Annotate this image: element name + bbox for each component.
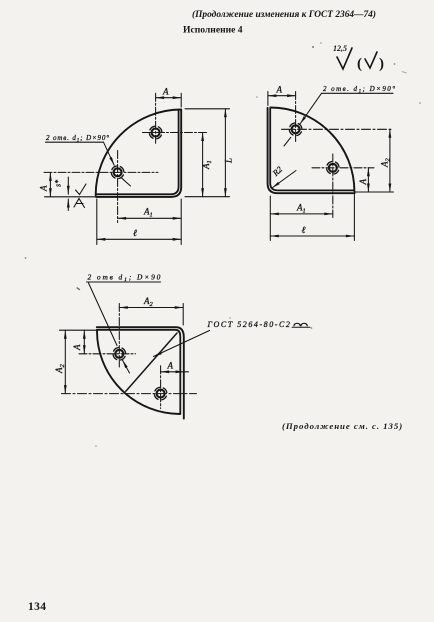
D1 bottom edge extension to left	[45, 196, 97, 198]
D3 weld seam diagonal	[126, 333, 177, 391]
D3 dim A left	[72, 330, 84, 354]
svg-text:A2: A2	[143, 296, 154, 308]
svg-text:ℓ: ℓ	[302, 226, 306, 236]
svg-text:A: A	[72, 344, 82, 351]
svg-text:s*: s*	[54, 180, 63, 187]
surface finish checkmark	[337, 48, 352, 69]
D1 dim L bottom	[97, 199, 181, 245]
D1 right flange outer line	[96, 110, 181, 197]
svg-text:A2: A2	[54, 364, 66, 375]
svg-text:): )	[379, 56, 384, 72]
D3 top edge + right edge inner line	[97, 330, 181, 414]
D3 upper hole	[79, 304, 136, 368]
D3 weld symbol waves	[294, 323, 307, 325]
D1 surface checkmark above edge	[76, 184, 87, 195]
svg-text:L: L	[224, 158, 234, 164]
D2 outer arc	[270, 107, 354, 191]
D1 dim A top	[156, 87, 182, 108]
D2 dim A right inner	[358, 168, 368, 192]
D2 dim A2 right	[355, 129, 394, 192]
D3 outer arc	[97, 331, 180, 414]
svg-text:(Продолжение см. с. 135): (Продолжение см. с. 135)	[282, 421, 403, 431]
svg-text:(: (	[357, 56, 362, 72]
scan specks	[25, 42, 421, 447]
D3 weld leader	[154, 331, 210, 357]
D3 hole leader	[89, 283, 130, 373]
svg-text:A: A	[167, 361, 174, 371]
D2 label R2	[270, 164, 296, 188]
svg-text:R2: R2	[270, 164, 285, 179]
D3 lower hole	[62, 366, 197, 409]
svg-text:A: A	[39, 185, 49, 192]
svg-text:A: A	[358, 179, 368, 186]
svg-text:A1: A1	[296, 203, 306, 215]
D1 dim A left	[39, 172, 51, 196]
svg-text:A: A	[276, 85, 283, 95]
D2 hole leader	[284, 93, 322, 146]
D2 left flange inner line + bottom inner	[270, 109, 354, 191]
D1 dim s* thickness	[54, 177, 69, 211]
svg-text:(Продолжение изменения к ГОСТ: (Продолжение изменения к ГОСТ 2364—74)	[192, 9, 376, 20]
D1 right flange inner line	[96, 111, 178, 195]
svg-text:Исполнение 4: Исполнение 4	[183, 25, 243, 36]
D2 upper hole	[282, 92, 394, 142]
D1 surface checkmark below edge	[74, 199, 85, 208]
svg-text:12,5: 12,5	[333, 44, 347, 53]
D1 upper hole	[143, 93, 207, 144]
D3 hole label underline	[87, 281, 161, 283]
D1 dim A1 right	[201, 133, 213, 197]
svg-text:A: A	[162, 87, 169, 97]
svg-text:ℓ: ℓ	[133, 229, 137, 239]
D2 lower hole	[312, 154, 374, 218]
D3 top edge + right edge outer line	[97, 327, 184, 418]
D3 dim A mid right	[161, 361, 189, 372]
D3 dim A2 top	[119, 296, 183, 325]
D1 outer arc	[96, 110, 181, 196]
D1 lower hole	[44, 151, 158, 223]
D2 dim A1 bottom	[270, 196, 333, 241]
svg-text:2 отв d1; D×90: 2 отв d1; D×90	[88, 273, 163, 283]
D2 dim L bottom	[270, 195, 354, 241]
D3 dim A2 left	[54, 330, 66, 393]
D2 hole label underline	[322, 92, 394, 94]
D1 hole leader	[104, 142, 131, 186]
svg-text:A1: A1	[143, 207, 153, 219]
D1 dim A1 bottom	[118, 199, 182, 245]
D2 dim A top	[268, 85, 296, 106]
svg-text:134: 134	[28, 601, 46, 613]
D3 top edge extension to left	[60, 329, 97, 331]
D1 hole label underline	[46, 141, 104, 143]
D1 dim L right	[185, 109, 234, 197]
D2 left flange outer line + bottom outer	[268, 108, 355, 193]
svg-text:ГОСТ 5264-80-С2: ГОСТ 5264-80-С2	[207, 320, 292, 329]
D3 weld symbol underline	[292, 326, 310, 328]
